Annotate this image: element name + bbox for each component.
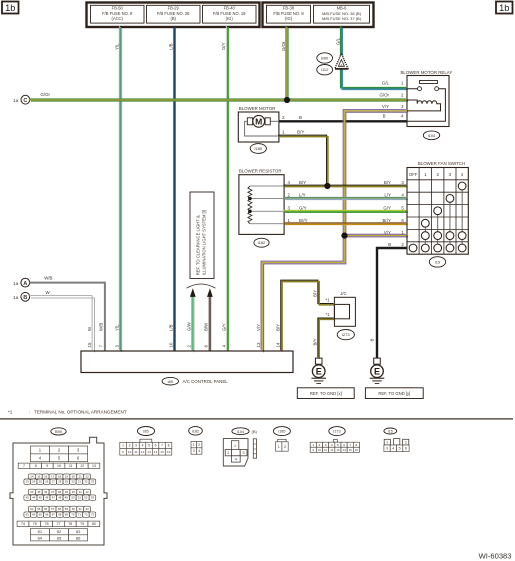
- wire L/B fuse FB-29 to panel pin 10: [173, 27, 175, 351]
- svg-text:i15: i15: [388, 430, 393, 434]
- svg-text:32: 32: [84, 480, 88, 484]
- svg-text:80: 80: [92, 522, 96, 526]
- svg-text:16: 16: [44, 475, 48, 479]
- wire V/Y relay pin 3 to panel pin 13: [261, 110, 408, 353]
- svg-text:i15: i15: [435, 259, 441, 264]
- svg-text:F/B FUSE NO. 9: F/B FUSE NO. 9: [102, 11, 133, 16]
- svg-text:B/Y: B/Y: [275, 324, 280, 331]
- svg-text:3: 3: [243, 451, 245, 455]
- svg-text:MB-6: MB-6: [337, 6, 348, 11]
- svg-text:6: 6: [405, 447, 407, 451]
- svg-text:G/Y: G/Y: [383, 206, 391, 211]
- A/C control panel: [81, 351, 293, 373]
- svg-text:16: 16: [167, 450, 171, 454]
- svg-text:83: 83: [76, 529, 81, 534]
- svg-text:(ACC): (ACC): [112, 16, 124, 21]
- svg-text:FB-50: FB-50: [112, 6, 124, 11]
- svg-text:Y/L: Y/L: [114, 324, 119, 331]
- svg-text:M/B FUSE NO. 36 (B): M/B FUSE NO. 36 (B): [322, 11, 362, 16]
- svg-text:48: 48: [58, 496, 62, 500]
- wire B/Y blower motor pin 1 down to resistor row: [278, 135, 328, 186]
- svg-text:(IG): (IG): [285, 16, 293, 21]
- svg-text:1b: 1b: [499, 3, 509, 13]
- svg-text:9: 9: [122, 450, 124, 454]
- svg-text:7: 7: [349, 443, 351, 447]
- svg-text:G/Y: G/Y: [221, 323, 226, 331]
- legend connector i104 (B): [223, 428, 257, 466]
- svg-text::: :: [29, 410, 30, 415]
- svg-text:13: 13: [336, 448, 340, 452]
- svg-text:G/Y: G/Y: [299, 206, 307, 211]
- svg-text:1a: 1a: [13, 295, 19, 301]
- blower motor M: [238, 106, 304, 142]
- svg-text:7: 7: [23, 464, 25, 468]
- svg-text:i104: i104: [237, 430, 244, 434]
- svg-text:2: 2: [282, 115, 285, 120]
- svg-text:86: 86: [76, 535, 81, 540]
- svg-text:B: B: [388, 242, 391, 247]
- wire Br/Y resistor pin 1 to switch pin 6: [283, 223, 407, 224]
- label G/Y: [221, 42, 226, 50]
- svg-text:FB-38: FB-38: [283, 6, 295, 11]
- blower motor relay: [379, 70, 452, 127]
- svg-text:A/C CONTROL PANEL: A/C CONTROL PANEL: [183, 379, 229, 384]
- doc number WI-60383: [479, 552, 512, 561]
- label G/L: [335, 37, 340, 45]
- svg-text:REF. TO CLEARANCE LIGHT &: REF. TO CLEARANCE LIGHT &: [196, 215, 201, 275]
- svg-text:58: 58: [58, 507, 62, 511]
- svg-text:W/B: W/B: [44, 276, 52, 281]
- svg-text:6: 6: [343, 443, 345, 447]
- svg-text:G/L: G/L: [335, 37, 340, 45]
- svg-text:i182: i182: [258, 240, 266, 245]
- svg-text:*1: *1: [8, 410, 13, 415]
- svg-text:G/W: G/W: [187, 321, 192, 331]
- legend divider + title: [0, 410, 513, 419]
- svg-text:i182: i182: [192, 429, 199, 433]
- svg-text:F/B FUSE NO. 8: F/B FUSE NO. 8: [273, 11, 304, 16]
- svg-text:G/Or: G/Or: [40, 92, 50, 97]
- svg-text:4: 4: [235, 458, 237, 462]
- svg-text:12: 12: [330, 448, 334, 452]
- node junction V/Y: [341, 233, 347, 239]
- svg-text:B/Y: B/Y: [312, 290, 317, 297]
- svg-text:77: 77: [56, 522, 60, 526]
- svg-text:2: 2: [129, 444, 131, 448]
- svg-text:5: 5: [399, 447, 401, 451]
- svg-text:REF. TO GND [x]: REF. TO GND [x]: [310, 391, 342, 396]
- svg-text:72: 72: [84, 513, 88, 517]
- svg-text:L/B: L/B: [168, 43, 173, 50]
- svg-text:43: 43: [26, 496, 30, 500]
- svg-text:*1: *1: [325, 297, 330, 302]
- ground E left: [311, 358, 326, 383]
- svg-text:(B): (B): [252, 429, 258, 434]
- wire V/Y branch to switch pin 1: [343, 234, 408, 237]
- svg-text:67: 67: [52, 513, 56, 517]
- svg-text:OFF: OFF: [409, 172, 418, 177]
- svg-text:F/B FUSE NO. 28: F/B FUSE NO. 28: [157, 11, 190, 16]
- svg-text:14: 14: [275, 342, 280, 347]
- svg-text:52: 52: [84, 496, 88, 500]
- svg-text:15: 15: [87, 342, 92, 347]
- legend connector i15: [384, 428, 409, 452]
- wire B blower motor pin 2 to relay pin 4: [279, 120, 407, 122]
- svg-text:V/Y: V/Y: [382, 104, 389, 109]
- label Y/L: [114, 43, 119, 50]
- svg-text:REF. TO GND [y]: REF. TO GND [y]: [378, 391, 410, 396]
- svg-text:61: 61: [79, 507, 83, 511]
- svg-text:84: 84: [38, 535, 43, 540]
- wire B/W panel pin 8 up arrow: [209, 296, 212, 352]
- fuse block FB-50/FB-29/FB-40 group: [87, 3, 260, 28]
- svg-text:34: 34: [30, 490, 34, 494]
- svg-text:9: 9: [46, 464, 48, 468]
- label L/B: [168, 43, 173, 50]
- svg-text:35: 35: [37, 490, 41, 494]
- svg-text:62: 62: [85, 507, 89, 511]
- svg-text:47: 47: [52, 496, 56, 500]
- svg-text:19: 19: [65, 475, 69, 479]
- svg-text:85: 85: [57, 535, 62, 540]
- svg-text:B: B: [299, 115, 302, 120]
- svg-text:3: 3: [386, 447, 388, 451]
- svg-text:i185: i185: [255, 146, 263, 151]
- wire L/Y resistor pin 2 to switch pin 4: [283, 197, 408, 199]
- arrowhead G/W: [190, 288, 196, 297]
- svg-text:E: E: [374, 367, 380, 377]
- svg-text:G/L: G/L: [382, 81, 390, 86]
- svg-text:i85: i85: [143, 429, 149, 434]
- svg-text:15: 15: [349, 448, 353, 452]
- svg-text:3: 3: [325, 443, 327, 447]
- svg-text:7: 7: [161, 444, 163, 448]
- arc over arrows: [187, 284, 216, 288]
- svg-text:1a: 1a: [13, 281, 19, 287]
- wire G/L fuse MB-6 down to relay pin 1: [341, 26, 408, 89]
- svg-text:B: B: [23, 295, 27, 301]
- svg-text:38: 38: [58, 490, 62, 494]
- svg-text:2: 2: [319, 443, 321, 447]
- svg-text:1b: 1b: [5, 3, 15, 13]
- svg-text:B/Y: B/Y: [312, 338, 317, 345]
- svg-text:2: 2: [227, 451, 229, 455]
- svg-text:TERMINAL No. OPTIONAL ARRANGEM: TERMINAL No. OPTIONAL ARRANGEMENT: [34, 410, 127, 415]
- svg-text:(B): (B): [170, 16, 176, 21]
- svg-text:2: 2: [284, 445, 286, 449]
- svg-text:6: 6: [155, 444, 157, 448]
- svg-text:1: 1: [386, 441, 388, 445]
- svg-text:33: 33: [91, 480, 95, 484]
- svg-text:82: 82: [57, 529, 62, 534]
- blower resistor: [239, 168, 308, 234]
- legend connector B90: [10, 428, 107, 545]
- svg-text:B/Y: B/Y: [384, 180, 391, 185]
- svg-text:G/Or: G/Or: [281, 41, 286, 51]
- svg-text:WI-60383: WI-60383: [479, 552, 512, 561]
- svg-text:i85: i85: [168, 379, 174, 384]
- svg-text:FB-29: FB-29: [168, 6, 180, 11]
- svg-text:L/B: L/B: [168, 324, 173, 331]
- label G/Or at C: [40, 92, 50, 97]
- legend connector i185: [273, 427, 290, 452]
- svg-text:i104: i104: [428, 133, 436, 138]
- svg-text:(IG): (IG): [226, 16, 234, 21]
- ref to gnd box left: [297, 388, 354, 399]
- svg-text:11: 11: [134, 450, 137, 454]
- svg-text:50: 50: [71, 496, 75, 500]
- svg-text:L/Y: L/Y: [384, 193, 391, 198]
- wire G/Or from connector C to relay pin 2: [29, 99, 408, 101]
- svg-text:8: 8: [35, 464, 37, 468]
- wire W/B connector A to panel pin 7: [30, 283, 105, 351]
- page tag 1b top-right: [496, 2, 513, 14]
- wire G/Y resistor pin 3 to switch pin 5: [283, 211, 407, 213]
- svg-text:66: 66: [45, 513, 49, 517]
- svg-text:10: 10: [57, 464, 61, 468]
- svg-text:16: 16: [355, 448, 359, 452]
- svg-text:69: 69: [65, 513, 69, 517]
- svg-text:G/Or: G/Or: [379, 93, 389, 98]
- svg-text:B: B: [383, 114, 386, 119]
- svg-text:25: 25: [39, 480, 43, 484]
- svg-text:12: 12: [80, 464, 84, 468]
- fuse block FB-38/MB-6 group: [263, 3, 374, 28]
- node junction G/Or fuse x horizontal: [284, 97, 290, 103]
- node junction B/Y motor branch: [324, 183, 330, 189]
- legend connector i85: [120, 427, 172, 456]
- junction connector J/C: [325, 291, 355, 327]
- svg-text:i112: i112: [321, 67, 329, 72]
- svg-text:C: C: [23, 98, 27, 104]
- svg-text:4: 4: [392, 447, 394, 451]
- svg-text:10: 10: [168, 342, 173, 347]
- svg-text:28: 28: [58, 480, 62, 484]
- label W at B: [46, 290, 51, 295]
- wire G/W panel pin 2 up arrow: [191, 294, 194, 352]
- ref to gnd box right: [365, 388, 423, 399]
- svg-text:M: M: [255, 116, 262, 126]
- svg-text:31: 31: [78, 480, 82, 484]
- svg-text:59: 59: [65, 507, 69, 511]
- switch row labels: [382, 180, 404, 247]
- svg-text:63: 63: [26, 513, 30, 517]
- svg-text:ILLUMINATION LIGHT SYSTEM [i]: ILLUMINATION LIGHT SYSTEM [i]: [202, 210, 207, 275]
- svg-text:3: 3: [135, 444, 137, 448]
- blower fan switch: [407, 161, 468, 254]
- svg-text:8: 8: [168, 444, 170, 448]
- svg-text:i273: i273: [342, 332, 350, 337]
- svg-text:V/Y: V/Y: [256, 324, 261, 331]
- svg-text:81: 81: [38, 529, 43, 534]
- svg-text:15: 15: [37, 475, 41, 479]
- svg-text:F/B FUSE NO. 19: F/B FUSE NO. 19: [213, 11, 246, 16]
- svg-text:M/B FUSE NO. 37 (B): M/B FUSE NO. 37 (B): [322, 16, 362, 21]
- wire G/Y fuse FB-40 to panel pin 4: [226, 26, 228, 352]
- svg-text:BLOWER RESISTOR: BLOWER RESISTOR: [239, 168, 282, 173]
- connector oval i85 + A/C CONTROL PANEL label: [162, 377, 228, 385]
- label B/Y lower: [312, 338, 317, 345]
- svg-text:17: 17: [51, 475, 55, 479]
- svg-text:13: 13: [147, 450, 151, 454]
- svg-text:i185: i185: [278, 430, 285, 434]
- svg-text:14: 14: [154, 450, 158, 454]
- svg-text:10: 10: [128, 450, 132, 454]
- svg-text:22: 22: [85, 475, 89, 479]
- ref to clearance light box: [190, 192, 214, 279]
- svg-text:26: 26: [45, 480, 49, 484]
- svg-text:20: 20: [72, 475, 76, 479]
- svg-text:13: 13: [92, 464, 96, 468]
- svg-text:45: 45: [39, 496, 43, 500]
- connector oval i104 under relay: [423, 131, 439, 140]
- svg-text:24: 24: [32, 480, 36, 484]
- panel pin labels: [87, 321, 280, 347]
- svg-text:56: 56: [44, 507, 48, 511]
- svg-text:37: 37: [51, 490, 55, 494]
- svg-text:78: 78: [68, 522, 72, 526]
- page tag 1b top-left: [2, 2, 19, 14]
- svg-text:27: 27: [52, 480, 56, 484]
- label G/Or: [281, 41, 286, 51]
- svg-text:1: 1: [278, 445, 280, 449]
- svg-text:53: 53: [91, 496, 95, 500]
- svg-text:41: 41: [79, 490, 83, 494]
- label B at ground wire: [370, 339, 375, 342]
- label B/Y upper: [312, 290, 317, 297]
- svg-text:B90: B90: [55, 429, 63, 434]
- svg-text:14: 14: [343, 448, 347, 452]
- wire B switch pin 2 to ground: [377, 248, 407, 358]
- svg-text:Y/L: Y/L: [114, 43, 119, 50]
- svg-text:4: 4: [331, 443, 333, 447]
- svg-text:J/C: J/C: [340, 291, 346, 296]
- svg-text:A: A: [23, 281, 27, 287]
- svg-text:1: 1: [234, 444, 236, 448]
- svg-text:21: 21: [79, 475, 83, 479]
- wire G/Or fuse FB-38 down to node: [286, 26, 288, 101]
- legend connector i273: [310, 427, 359, 453]
- svg-text:13: 13: [256, 342, 261, 347]
- connector oval i273 under J/C: [337, 330, 354, 340]
- svg-text:BLOWER FAN SWITCH: BLOWER FAN SWITCH: [418, 161, 465, 166]
- connector B90/i112 pass-through triangle: [317, 53, 348, 75]
- svg-text:W/B: W/B: [99, 323, 104, 331]
- svg-text:12: 12: [141, 450, 145, 454]
- svg-text:E: E: [316, 367, 322, 377]
- svg-text:51: 51: [78, 496, 82, 500]
- svg-text:B/Y: B/Y: [299, 180, 306, 185]
- svg-text:30: 30: [71, 480, 75, 484]
- svg-text:11: 11: [69, 464, 73, 468]
- svg-text:29: 29: [65, 480, 69, 484]
- svg-text:40: 40: [72, 490, 76, 494]
- svg-text:B/W: B/W: [204, 322, 209, 331]
- svg-text:74: 74: [21, 522, 25, 526]
- svg-text:BLOWER MOTOR RELAY: BLOWER MOTOR RELAY: [401, 70, 453, 75]
- connector 1a A: [13, 278, 30, 287]
- svg-text:B90: B90: [321, 56, 329, 61]
- svg-text:68: 68: [58, 513, 62, 517]
- legend connector i182: [189, 427, 203, 455]
- svg-text:2: 2: [405, 441, 407, 445]
- label W/B at A: [44, 276, 52, 281]
- connector oval i182 under resistor: [254, 238, 269, 247]
- connector 1a B: [13, 292, 30, 301]
- svg-text:42: 42: [85, 490, 89, 494]
- connector 1a C: [13, 95, 30, 104]
- svg-text:1a: 1a: [13, 98, 19, 104]
- svg-text:4: 4: [198, 449, 200, 453]
- wire B/Y J/C second pin down to ground: [318, 318, 335, 359]
- svg-text:B: B: [370, 339, 375, 342]
- svg-text:V/Y: V/Y: [384, 230, 391, 235]
- svg-text:79: 79: [80, 522, 84, 526]
- svg-text:Br/Y: Br/Y: [299, 218, 308, 223]
- connector oval i185 under blower motor: [250, 144, 266, 154]
- svg-text:5: 5: [148, 444, 150, 448]
- svg-text:57: 57: [51, 507, 55, 511]
- svg-text:3: 3: [193, 449, 195, 453]
- svg-text:55: 55: [37, 507, 41, 511]
- svg-text:18: 18: [58, 475, 62, 479]
- svg-text:1: 1: [312, 443, 314, 447]
- svg-text:65: 65: [39, 513, 43, 517]
- svg-text:8: 8: [356, 443, 358, 447]
- svg-text:73: 73: [91, 513, 95, 517]
- svg-text:44: 44: [32, 496, 36, 500]
- svg-text:14: 14: [30, 475, 34, 479]
- svg-text:54: 54: [30, 507, 34, 511]
- svg-text:11: 11: [324, 448, 327, 452]
- arrowhead B/W: [207, 288, 213, 297]
- svg-text:B/Y: B/Y: [297, 130, 304, 135]
- svg-text:71: 71: [78, 513, 82, 517]
- wire W connector B to panel pin 15: [29, 296, 95, 353]
- wire B/Y resistor pin 4 to switch pin 3: [283, 185, 407, 186]
- svg-text:75: 75: [33, 522, 37, 526]
- svg-text:70: 70: [71, 513, 75, 517]
- connector oval i15 under switch: [429, 257, 445, 267]
- svg-text:Br/Y: Br/Y: [382, 218, 391, 223]
- ground E right: [370, 358, 385, 383]
- svg-text:23: 23: [26, 480, 30, 484]
- svg-text:10: 10: [318, 448, 322, 452]
- wire Y/L fuse FB-50 to panel pin 3: [119, 26, 121, 352]
- svg-text:G/Y: G/Y: [221, 42, 226, 50]
- svg-text:36: 36: [44, 490, 48, 494]
- svg-text:1: 1: [282, 130, 285, 135]
- svg-text:1: 1: [193, 443, 195, 447]
- wire B/Y panel pin 14 up over to J/C pin *1: [281, 280, 335, 351]
- svg-text:46: 46: [45, 496, 49, 500]
- svg-text:76: 76: [45, 522, 49, 526]
- svg-text:64: 64: [32, 513, 36, 517]
- svg-text:4: 4: [142, 444, 144, 448]
- svg-text:BLOWER MOTOR: BLOWER MOTOR: [239, 106, 276, 111]
- svg-text:49: 49: [65, 496, 69, 500]
- svg-text:i273: i273: [333, 430, 340, 434]
- svg-text:2: 2: [198, 443, 200, 447]
- svg-text:*1: *1: [325, 312, 330, 317]
- svg-text:1: 1: [122, 444, 124, 448]
- svg-text:39: 39: [65, 490, 69, 494]
- svg-text:60: 60: [72, 507, 76, 511]
- svg-text:15: 15: [160, 450, 164, 454]
- svg-text:FB-40: FB-40: [224, 6, 236, 11]
- svg-text:5: 5: [337, 443, 339, 447]
